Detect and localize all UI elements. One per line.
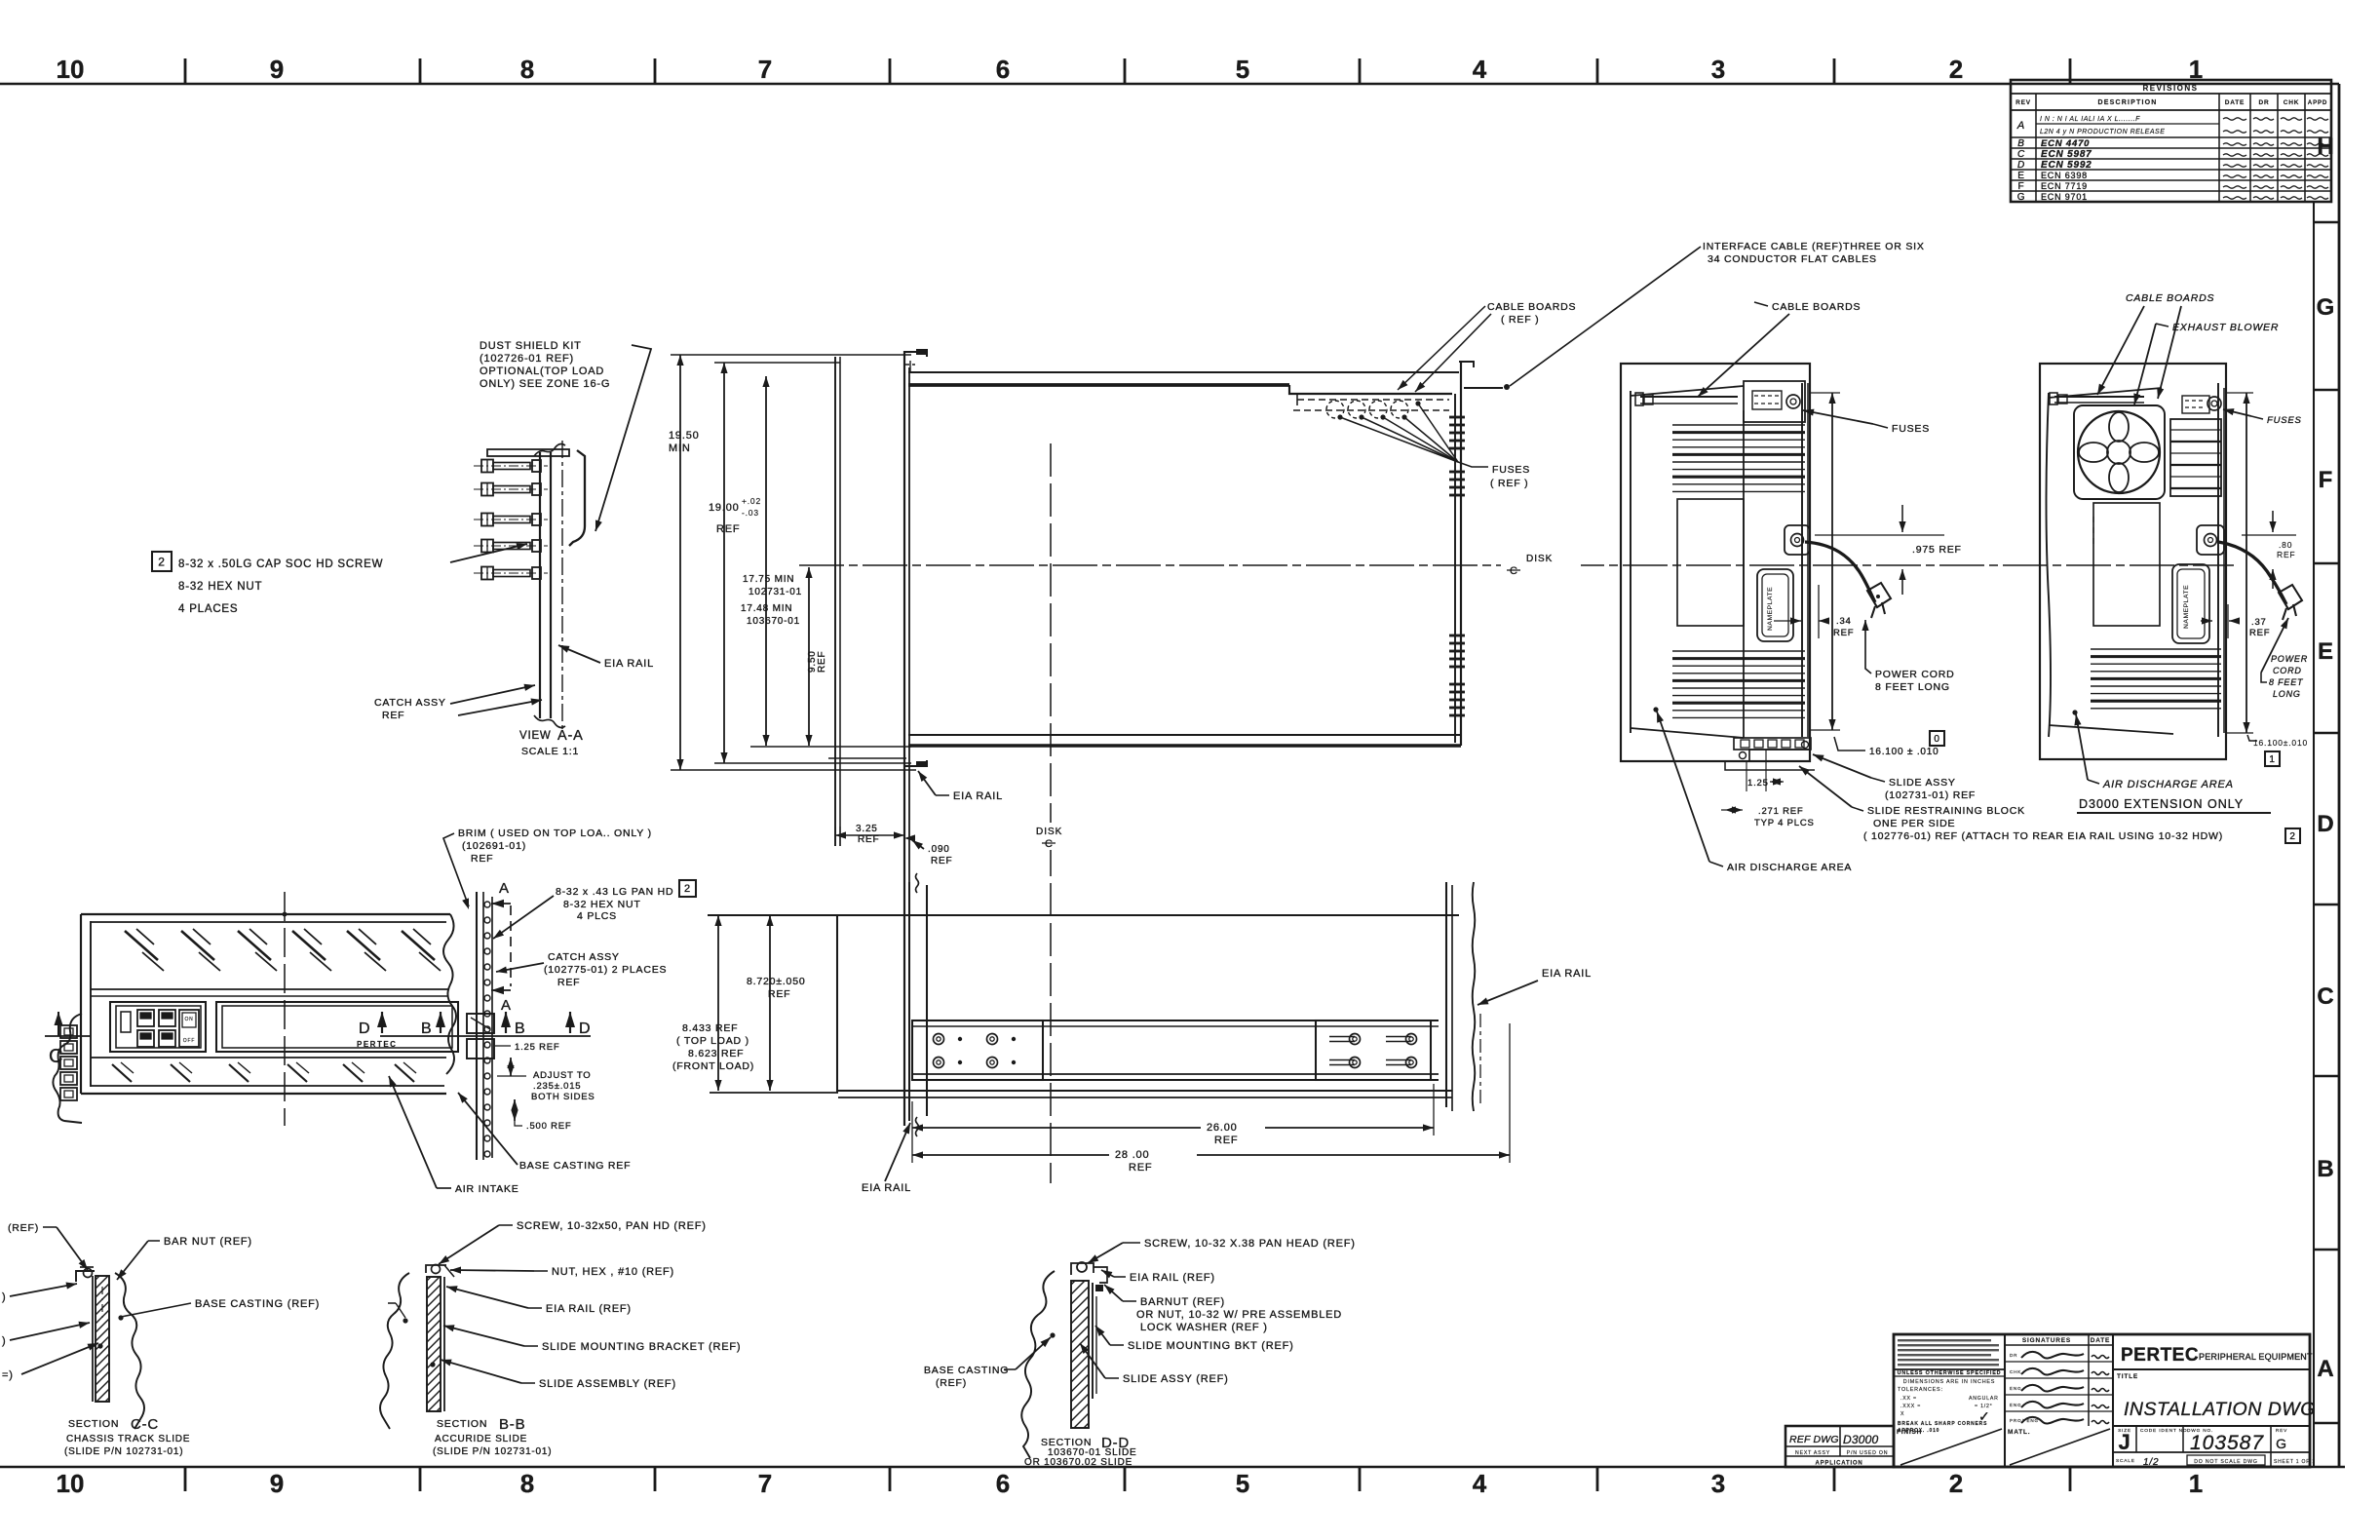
svg-text:7: 7 <box>758 1469 772 1498</box>
svg-text:ENG: ENG <box>2010 1403 2021 1407</box>
svg-text:J: J <box>2118 1430 2130 1454</box>
svg-text:1: 1 <box>2189 1469 2203 1498</box>
svg-text:8.433 REF: 8.433 REF <box>682 1022 738 1034</box>
svg-text:( REF ): ( REF ) <box>1490 478 1528 489</box>
svg-text:LOCK WASHER (REF ): LOCK WASHER (REF ) <box>1140 1322 1268 1333</box>
side view left bezel <box>836 915 838 1093</box>
svg-text:DISK: DISK <box>1526 554 1553 564</box>
svg-text:.271 REF: .271 REF <box>1758 806 1804 817</box>
svg-text:): ) <box>2 1335 6 1347</box>
svg-text:AIR INTAKE: AIR INTAKE <box>455 1183 519 1195</box>
svg-text:.235±.015: .235±.015 <box>533 1081 581 1092</box>
section B-B top screw <box>432 1265 441 1274</box>
svg-text:FUSES: FUSES <box>1492 464 1530 476</box>
svg-text:TOLERANCES:: TOLERANCES: <box>1898 1387 1943 1393</box>
svg-text:(102731-01) REF: (102731-01) REF <box>1885 789 1976 801</box>
svg-text:ECN 6398: ECN 6398 <box>2041 171 2088 180</box>
svg-text:DATE: DATE <box>2091 1337 2110 1344</box>
top view disk horizontal centerline <box>799 564 2234 566</box>
svg-text:( 102776-01) REF (ATTACH TO R: ( 102776-01) REF (ATTACH TO REAR EIA RAI… <box>1863 830 2223 842</box>
svg-text:D: D <box>359 1020 370 1037</box>
side view slide left mounting plate <box>912 1020 1043 1080</box>
svg-text:( TOP LOAD ): ( TOP LOAD ) <box>676 1035 749 1047</box>
svg-text:4 PLCS: 4 PLCS <box>577 910 617 922</box>
side view dim 28.00 REF <box>912 1154 1109 1156</box>
svg-text:26.00: 26.00 <box>1207 1122 1238 1134</box>
svg-text:DATE: DATE <box>2225 99 2245 106</box>
svg-text:8: 8 <box>520 55 534 84</box>
view A-A screw note leader <box>450 544 527 562</box>
svg-text:10: 10 <box>57 55 85 84</box>
svg-text:REF: REF <box>1214 1135 1238 1146</box>
svg-text:SECTION: SECTION <box>68 1418 119 1430</box>
svg-text:A: A <box>501 997 512 1014</box>
left cabinet .271 dim <box>1721 809 1743 811</box>
left cabinet upper louvers <box>1672 424 1805 426</box>
front view lower band lines <box>91 1057 446 1059</box>
svg-text:8-32 x .50LG CAP SOC HD SCREW: 8-32 x .50LG CAP SOC HD SCREW <box>178 558 383 570</box>
svg-text:D: D <box>579 1020 591 1037</box>
svg-text:6: 6 <box>996 55 1010 84</box>
top view top-left rail clip <box>904 352 927 357</box>
right cabinet outer rack opening <box>2040 364 2226 759</box>
section D-D hatched bar <box>1071 1281 1089 1428</box>
svg-text:NEXT ASSY: NEXT ASSY <box>1795 1450 1830 1456</box>
svg-text:REVISIONS: REVISIONS <box>2142 84 2198 93</box>
front view section B D arrows outer <box>501 1012 511 1027</box>
svg-text:DISK: DISK <box>1036 827 1062 837</box>
svg-text:1: 1 <box>2269 754 2275 765</box>
svg-text:B-B: B-B <box>499 1416 525 1433</box>
svg-text:SCREW, 10-32x50, PAN HD (REF): SCREW, 10-32x50, PAN HD (REF) <box>517 1220 707 1232</box>
svg-text:POWER CORD: POWER CORD <box>1875 669 1955 680</box>
svg-text:CABLE BOARDS: CABLE BOARDS <box>1772 301 1861 313</box>
svg-text:CHK: CHK <box>2010 1369 2021 1374</box>
left cabinet top angled edge <box>1631 386 1744 396</box>
svg-text:SLIDE ASSEMBLY (REF): SLIDE ASSEMBLY (REF) <box>539 1378 676 1390</box>
section B-B hatched bar <box>427 1277 441 1411</box>
svg-text:APPD: APPD <box>2308 99 2327 106</box>
top view fuses leader fan <box>1340 417 1458 462</box>
svg-text:C: C <box>1045 838 1054 850</box>
front view right catch rail <box>476 892 478 1160</box>
svg-text:DR: DR <box>2010 1353 2017 1358</box>
svg-text:8 FEET: 8 FEET <box>2269 677 2304 687</box>
left cabinet power plug <box>1867 583 1891 607</box>
svg-text:LONG: LONG <box>2273 689 2301 699</box>
svg-text:SCALE: SCALE <box>2116 1458 2135 1464</box>
svg-text:B: B <box>2017 138 2024 149</box>
left cabinet bottom angled edge <box>1631 728 1744 738</box>
svg-text:102731-01: 102731-01 <box>749 587 802 597</box>
svg-text:REF: REF <box>2277 550 2295 559</box>
svg-text:BASE CASTING REF: BASE CASTING REF <box>519 1160 631 1172</box>
svg-text:8-32 HEX NUT: 8-32 HEX NUT <box>563 899 641 910</box>
svg-text:E: E <box>2318 638 2333 665</box>
svg-text:SECTION: SECTION <box>437 1418 487 1430</box>
left cabinet nameplate <box>1757 569 1793 641</box>
svg-text:SCREW, 10-32 X.38 PAN HEAD (RE: SCREW, 10-32 X.38 PAN HEAD (REF) <box>1144 1238 1356 1250</box>
left cabinet chassis left wall <box>1630 391 1631 733</box>
left cabinet power socket <box>1785 525 1810 555</box>
front view right wavy end <box>443 914 456 1074</box>
right border inner line <box>2313 202 2315 1467</box>
svg-text:A: A <box>2317 1356 2333 1382</box>
front view glass diagonal marks lower <box>112 1064 132 1082</box>
top view dim 9.50 REF <box>808 567 810 746</box>
front view glass diagonal reflection marks upper <box>125 931 158 960</box>
svg-text:ECN 5992: ECN 5992 <box>2041 160 2092 171</box>
svg-text:MIN: MIN <box>669 443 691 454</box>
svg-text:BASE CASTING (REF): BASE CASTING (REF) <box>195 1298 320 1310</box>
front view outer left edge <box>80 914 82 1094</box>
svg-text:BOTH SIDES: BOTH SIDES <box>531 1092 595 1102</box>
svg-text:F: F <box>2018 181 2025 192</box>
top view rack vertical lines <box>834 357 836 846</box>
right cabinet top angled edge <box>2049 388 2162 398</box>
svg-text:DR: DR <box>2259 99 2270 106</box>
view A-A bolt centerlines <box>474 465 548 467</box>
section C-C left thin bar <box>92 1276 94 1402</box>
svg-text:3: 3 <box>1711 1469 1725 1498</box>
svg-text:ON: ON <box>184 1017 193 1022</box>
svg-text:PERTEC: PERTEC <box>2121 1345 2199 1366</box>
left cabinet bottom slide detail <box>1734 738 1811 750</box>
svg-text:FUSES: FUSES <box>2267 415 2302 426</box>
left cabinet 16.100 dim <box>1810 392 1840 394</box>
svg-text:2: 2 <box>684 883 691 895</box>
view A-A rail wavy break bottom <box>534 715 565 727</box>
right cabinet nameplate <box>2172 564 2209 643</box>
top view body right edge <box>1454 394 1456 743</box>
title block title box <box>2113 1425 2310 1427</box>
svg-text:REF: REF <box>931 856 952 866</box>
svg-text:DUST SHIELD KIT: DUST SHIELD KIT <box>480 340 582 352</box>
revision table row lines <box>2011 136 2331 138</box>
section C-C hatched rail bar <box>96 1276 109 1402</box>
side view top edge line <box>708 914 1459 916</box>
front view control panel <box>110 1002 206 1052</box>
svg-text:REF: REF <box>2249 628 2270 638</box>
svg-text:19.50: 19.50 <box>669 430 700 442</box>
svg-text:CHASSIS TRACK SLIDE: CHASSIS TRACK SLIDE <box>66 1434 190 1444</box>
view A-A dust shield leader <box>595 345 651 531</box>
front view display window <box>216 1002 458 1052</box>
svg-text:C: C <box>1510 565 1518 577</box>
view A-A mounting screws <box>493 463 530 470</box>
svg-text:103587: 103587 <box>2190 1432 2264 1454</box>
svg-text:REV: REV <box>2015 99 2031 106</box>
svg-text:(SLIDE P/N 102731-01): (SLIDE P/N 102731-01) <box>433 1446 552 1457</box>
revision table frame <box>2011 80 2331 202</box>
svg-text:28 .00: 28 .00 <box>1115 1149 1149 1161</box>
svg-text:2: 2 <box>1949 55 1963 84</box>
left cabinet .34 REF dim <box>1818 585 1820 638</box>
svg-text:ONE PER SIDE: ONE PER SIDE <box>1873 818 1955 829</box>
svg-text:D3000: D3000 <box>1843 1433 1878 1446</box>
svg-text:C: C <box>2317 983 2333 1010</box>
svg-text:BAR NUT (REF): BAR NUT (REF) <box>164 1236 252 1248</box>
view A-A top pin <box>487 449 569 456</box>
svg-text:NUT, HEX , #10 (REF): NUT, HEX , #10 (REF) <box>552 1266 674 1278</box>
front view top edge <box>81 913 450 915</box>
svg-text:DIMENSIONS ARE IN INCHES: DIMENSIONS ARE IN INCHES <box>1903 1379 1995 1385</box>
svg-text:REF: REF <box>817 651 827 673</box>
svg-text:C-C: C-C <box>131 1416 159 1433</box>
svg-text:APPLICATION: APPLICATION <box>1815 1461 1862 1467</box>
svg-text:INTERFACE CABLE (REF)THREE OR: INTERFACE CABLE (REF)THREE OR SIX <box>1703 241 1925 252</box>
svg-text:E: E <box>2017 171 2024 181</box>
svg-text:CORD: CORD <box>2273 666 2302 675</box>
svg-text:ENG: ENG <box>2010 1386 2021 1391</box>
side view dim 8.720 <box>769 915 771 1091</box>
svg-text:(FRONT LOAD): (FRONT LOAD) <box>672 1060 754 1072</box>
svg-text:5: 5 <box>1236 1469 1249 1498</box>
top view fuse holder dashed circles <box>1326 401 1344 418</box>
right cabinet .37 REF dim <box>2227 604 2229 638</box>
top view dim 19.50 MIN <box>679 355 681 770</box>
right border outer line <box>2338 84 2341 1467</box>
front view section A markers <box>491 900 504 907</box>
svg-text:A: A <box>499 880 510 897</box>
svg-text:): ) <box>2 1291 6 1303</box>
side view left EIA rail <box>908 882 910 1121</box>
left cabinet cable board bar <box>1640 396 1738 398</box>
svg-text:OPTIONAL(TOP LOAD: OPTIONAL(TOP LOAD <box>480 366 604 377</box>
svg-text:X: X <box>1900 1411 1904 1417</box>
svg-text:3.25: 3.25 <box>856 824 878 834</box>
front view glass band bottom line <box>91 988 448 990</box>
svg-text:( REF ): ( REF ) <box>1501 314 1539 326</box>
svg-text:.XX =: .XX = <box>1900 1396 1917 1402</box>
right cabinet bottom angled edge <box>2049 725 2173 734</box>
side view right EIA rail <box>1445 882 1447 1107</box>
svg-text:G: G <box>2017 192 2026 203</box>
right cabinet exhaust blower box <box>2074 405 2165 499</box>
svg-text:.34: .34 <box>1836 616 1852 627</box>
svg-text:REF: REF <box>1129 1162 1152 1174</box>
left cabinet .975 REF dim <box>1815 534 1944 536</box>
svg-text:19.00: 19.00 <box>709 502 740 514</box>
svg-text:D3000 EXTENSION ONLY: D3000 EXTENSION ONLY <box>2079 797 2244 811</box>
svg-text:CODE IDENT NO.: CODE IDENT NO. <box>2140 1428 2190 1434</box>
title block property notice box <box>2004 1334 2006 1467</box>
svg-text:10: 10 <box>57 1469 85 1498</box>
svg-text:TYP 4 PLCS: TYP 4 PLCS <box>1754 818 1815 828</box>
svg-text:REF: REF <box>1833 628 1854 638</box>
svg-text:FINISH: FINISH <box>1897 1429 1922 1436</box>
svg-text:A-A: A-A <box>557 728 584 744</box>
svg-text:B: B <box>421 1020 432 1037</box>
left cabinet right wall <box>1801 383 1803 737</box>
svg-text:DESCRIPTION: DESCRIPTION <box>2097 99 2157 106</box>
svg-text:.XXX =: .XXX = <box>1900 1404 1921 1409</box>
section B-B base casting wavy outline <box>380 1273 409 1429</box>
front view section C arrow and letter <box>55 1012 63 1025</box>
svg-text:NAMEPLATE: NAMEPLATE <box>2183 585 2190 629</box>
svg-text:8: 8 <box>520 1469 534 1498</box>
left cabinet zero flag <box>1930 731 1944 746</box>
svg-text:3: 3 <box>1711 55 1725 84</box>
top view bottom-left rail clip <box>904 760 927 766</box>
left cabinet fuse block <box>1744 381 1805 422</box>
title block signatures box <box>2005 1344 2113 1346</box>
svg-text:2: 2 <box>158 555 165 568</box>
svg-text:ECN 9701: ECN 9701 <box>2041 192 2088 202</box>
svg-text:9: 9 <box>270 1469 284 1498</box>
svg-text:REF: REF <box>768 988 790 1000</box>
svg-text:34 CONDUCTOR FLAT CABLES: 34 CONDUCTOR FLAT CABLES <box>1708 253 1877 265</box>
svg-text:EIA RAIL (REF): EIA RAIL (REF) <box>546 1303 632 1315</box>
top view interface cable note <box>1510 247 1701 386</box>
svg-text:(REF): (REF) <box>8 1222 39 1234</box>
top view dim extension lines <box>671 354 911 356</box>
svg-text:F: F <box>2319 467 2333 493</box>
svg-text:SLIDE MOUNTING BKT (REF): SLIDE MOUNTING BKT (REF) <box>1128 1340 1294 1352</box>
svg-text:16.100 ± .010: 16.100 ± .010 <box>1869 747 1939 757</box>
svg-text:CATCH ASSY: CATCH ASSY <box>548 951 620 963</box>
right cabinet power socket <box>2197 525 2224 555</box>
top view fuse connector dashed rows <box>1297 399 1449 401</box>
svg-text:CATCH ASSY: CATCH ASSY <box>374 697 446 709</box>
section C-C base casting wavy outline <box>115 1273 144 1429</box>
front view left hinge detail <box>53 1014 82 1123</box>
svg-text:EIA RAIL: EIA RAIL <box>1542 968 1592 980</box>
svg-text:1.25: 1.25 <box>1747 778 1769 789</box>
svg-text:17.75 MIN: 17.75 MIN <box>743 574 794 585</box>
right cabinet fan circle <box>2078 411 2160 493</box>
svg-text:(SLIDE P/N 102731-01): (SLIDE P/N 102731-01) <box>64 1446 183 1457</box>
svg-text:BASE CASTING: BASE CASTING <box>924 1365 1009 1376</box>
svg-text:8-32 HEX NUT: 8-32 HEX NUT <box>178 581 262 593</box>
left cabinet lower louvers <box>1672 650 1805 652</box>
svg-text:1/2: 1/2 <box>2143 1457 2159 1468</box>
svg-text:8.623 REF: 8.623 REF <box>688 1048 744 1059</box>
svg-text:L2N 4 y N PRODUCTION RELEASE: L2N 4 y N PRODUCTION RELEASE <box>2040 129 2165 135</box>
top view right edge connector combs <box>1449 416 1465 419</box>
right cabinet 16.100 dim <box>2226 392 2253 394</box>
top view DISK CL label vertical <box>1029 823 1074 850</box>
svg-text:REF: REF <box>557 977 580 988</box>
svg-text:REF DWG: REF DWG <box>1789 1434 1839 1445</box>
right cabinet fan blades <box>2109 412 2129 442</box>
side view dim 8.433/8.623 <box>717 915 719 1091</box>
svg-text:(102775-01) 2 PLACES: (102775-01) 2 PLACES <box>544 964 667 976</box>
front view center dashed line <box>284 892 286 1126</box>
svg-text:ANGULAR: ANGULAR <box>1969 1396 1999 1402</box>
right cabinet cable board bar <box>2054 396 2144 398</box>
right cabinet lower louvers <box>2091 648 2221 650</box>
left cabinet interior right wall <box>1743 386 1745 738</box>
svg-text:PERIPHERAL EQUIPMENT: PERIPHERAL EQUIPMENT <box>2199 1352 2313 1362</box>
svg-text:ADJUST TO: ADJUST TO <box>533 1070 591 1081</box>
section D-D slide bracket line <box>1092 1283 1094 1399</box>
svg-text:POWER: POWER <box>2271 654 2308 664</box>
svg-text:AIR DISCHARGE AREA: AIR DISCHARGE AREA <box>2102 779 2234 790</box>
svg-text:SHEET 1 OF 1: SHEET 1 OF 1 <box>2274 1459 2316 1465</box>
title block tolerance box text <box>1894 1375 2005 1377</box>
left cabinet power cord <box>1805 542 1875 602</box>
top ruler zone ticks <box>184 58 187 84</box>
svg-text:2: 2 <box>1949 1469 1963 1498</box>
svg-text:EIA RAIL (REF): EIA RAIL (REF) <box>1130 1272 1215 1284</box>
view A-A rail wavy break top <box>534 444 565 456</box>
svg-text:CABLE BOARDS: CABLE BOARDS <box>1487 301 1576 313</box>
top view dim 17.75/17.48 <box>765 376 767 746</box>
svg-text:103670-01: 103670-01 <box>747 616 800 627</box>
svg-text:OFF: OFF <box>183 1038 195 1044</box>
svg-text:EIA RAIL: EIA RAIL <box>953 790 1003 802</box>
title block outer frame <box>1894 1334 2310 1467</box>
front view catch bracket <box>467 1014 494 1033</box>
svg-text:SLIDE RESTRAINING BLOCK: SLIDE RESTRAINING BLOCK <box>1867 805 2025 817</box>
svg-text:.80: .80 <box>2279 540 2292 550</box>
section C-C bar nut bracket <box>76 1271 95 1282</box>
svg-text:PERTEC: PERTEC <box>357 1040 397 1049</box>
svg-text:4 PLACES: 4 PLACES <box>178 603 238 615</box>
title block company box PERTEC <box>2112 1334 2114 1467</box>
side view body bottom lines <box>838 1090 1452 1092</box>
svg-text:17.48 MIN: 17.48 MIN <box>741 603 792 614</box>
svg-text:CABLE BOARDS: CABLE BOARDS <box>2126 292 2214 304</box>
svg-text:BARNUT (REF): BARNUT (REF) <box>1140 1296 1225 1308</box>
svg-text:9: 9 <box>270 55 284 84</box>
svg-text:(REF): (REF) <box>936 1377 967 1389</box>
right cabinet left wall <box>2047 393 2052 737</box>
svg-text:REF: REF <box>471 853 493 865</box>
svg-text:.37: .37 <box>2251 617 2267 628</box>
svg-text:EIA RAIL: EIA RAIL <box>604 658 654 670</box>
svg-text:FUSES: FUSES <box>1892 423 1930 435</box>
svg-text:ECN 7719: ECN 7719 <box>2041 181 2088 191</box>
svg-text:C: C <box>2017 149 2025 160</box>
svg-text:ONLY) SEE ZONE 16-G: ONLY) SEE ZONE 16-G <box>480 378 610 390</box>
section D-D base casting wavy outline <box>1021 1271 1055 1458</box>
view A-A EIA rail vertical <box>539 452 541 718</box>
svg-text:8.720±.050: 8.720±.050 <box>747 976 805 987</box>
svg-text:OR 103670.02 SLIDE: OR 103670.02 SLIDE <box>1024 1457 1132 1468</box>
left cabinet 1.25 dim <box>1746 761 1747 791</box>
svg-text:DO NOT SCALE DWG: DO NOT SCALE DWG <box>2194 1459 2257 1465</box>
svg-text:=): =) <box>2 1369 14 1381</box>
svg-text:ECN 5987: ECN 5987 <box>2041 149 2092 160</box>
svg-text:SIGNATURES: SIGNATURES <box>2022 1337 2071 1344</box>
top view body top edge <box>908 371 1459 373</box>
svg-text:4: 4 <box>1473 1469 1487 1498</box>
svg-text:AIR DISCHARGE AREA: AIR DISCHARGE AREA <box>1727 862 1852 873</box>
svg-text:+.02: +.02 <box>742 496 761 506</box>
right cabinet one flag <box>2265 751 2280 766</box>
left cabinet outer rack opening <box>1621 364 1810 761</box>
front view power rocker ON/OFF <box>179 1010 199 1047</box>
right border zone ticks <box>2314 221 2339 224</box>
side view slide right mounting plate <box>1316 1020 1431 1080</box>
svg-text:UNLESS OTHERWISE SPECIFIED: UNLESS OTHERWISE SPECIFIED <box>1898 1370 2002 1376</box>
page border top ruler line <box>0 83 2339 86</box>
svg-text:16.100±.010: 16.100±.010 <box>2253 738 2308 748</box>
top view CL DISK label on centerline <box>1501 552 1581 577</box>
title block application block frame <box>1785 1426 1894 1467</box>
svg-text:1.25 REF: 1.25 REF <box>515 1042 560 1053</box>
section B-B right line <box>443 1277 445 1411</box>
svg-text:G: G <box>2317 294 2335 321</box>
svg-text:7: 7 <box>758 55 772 84</box>
revision table date/approval scrawls <box>2223 118 2246 120</box>
svg-text:.500 REF: .500 REF <box>526 1121 572 1132</box>
svg-text:D: D <box>2017 160 2025 171</box>
svg-text:SLIDE MOUNTING BRACKET (REF): SLIDE MOUNTING BRACKET (REF) <box>542 1341 741 1353</box>
section B-B base casting leader <box>388 1302 396 1304</box>
